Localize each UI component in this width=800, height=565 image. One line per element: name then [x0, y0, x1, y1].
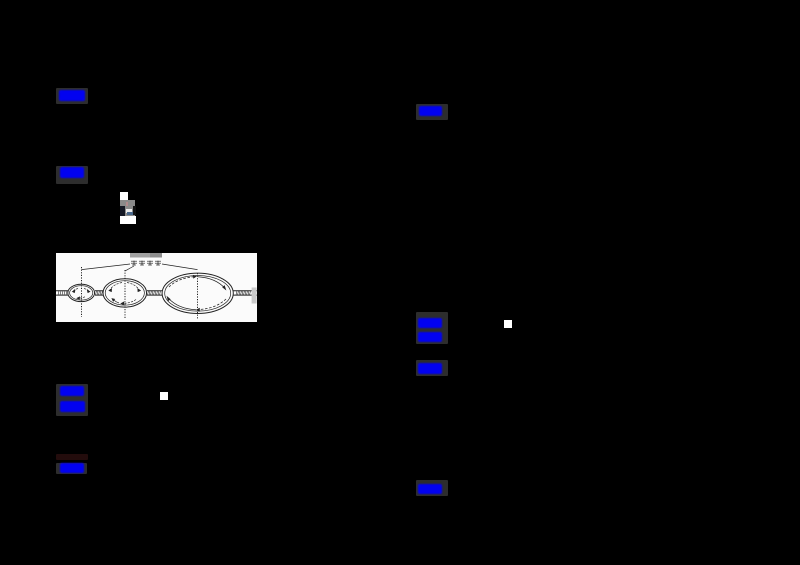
answer G blue text blob: [418, 318, 442, 328]
answer button A (left column, gray backing): [56, 88, 88, 104]
small inline image icon: pink speck: [126, 202, 128, 206]
small inline image icon: dark right notch: [133, 206, 136, 215]
figure: replication bubble 2 (medium) outer: [103, 279, 147, 307]
answer pair C/D gray backing (left column): [56, 384, 88, 416]
small inline image icon: dark navy detail: [120, 206, 125, 216]
figure: bubble 2 arrows: [109, 283, 140, 305]
answer H blue text blob: [418, 332, 442, 342]
answer button B blue text blob: [60, 167, 84, 178]
answer F blue text blob: [419, 106, 442, 116]
figure: label 复制起点 (drawn strokes): [131, 261, 161, 266]
figure: gray smudge at top: [130, 253, 150, 258]
answer D blue text blob: [60, 401, 85, 412]
figure: label connector lines: [82, 264, 198, 271]
answer E blue text blob: [60, 463, 84, 473]
answer button J gray backing: [416, 480, 448, 496]
figure: hatch ticks on strands: [58, 291, 251, 295]
answer button A blue text blob: [59, 90, 85, 101]
figure: replication bubble 3 inner: [165, 276, 231, 312]
small inline image icon: white wedge detail: [126, 209, 132, 213]
figure: replication bubble 1 inner: [70, 286, 93, 300]
figure: bubble 3 upper-left dashed arrows: [167, 275, 226, 311]
white tofu square (right column): [504, 320, 512, 328]
answer button B (left column, gray backing): [56, 166, 88, 184]
figure: replication bubble 3 (large) outer: [162, 273, 233, 313]
figure: dotted origin line 3: [197, 273, 199, 319]
figure: right-edge gray patch: [252, 288, 257, 304]
answer button I gray backing: [416, 360, 448, 376]
figure: bubble 1 arrows: [73, 289, 90, 300]
dark red text remnant above answer E: [56, 454, 88, 460]
answer J blue text blob: [418, 484, 442, 494]
answer button E gray backing: [56, 463, 87, 474]
figure: dotted origin line 2: [124, 270, 126, 319]
small inline image icon: gray thumbnail: [120, 200, 135, 216]
figure: parental strand segment left end: [56, 291, 257, 295]
white tofu square (left column): [160, 392, 168, 400]
answer pair G/H gray backing (right column): [416, 312, 448, 344]
answer I blue text blob: [418, 363, 442, 374]
DNA replication figure (white panel): [56, 253, 257, 322]
small inline image icon: white L-shaped block: [120, 192, 128, 224]
answer button F gray backing (right column): [416, 104, 448, 120]
answer C blue text blob: [60, 386, 84, 396]
small inline image icon: steel-blue detail: [127, 212, 133, 215]
figure: dotted origin line 1: [81, 267, 83, 317]
figure: replication bubble 1 (small) outer: [68, 284, 95, 301]
figure: replication bubble 2 inner: [105, 281, 144, 305]
